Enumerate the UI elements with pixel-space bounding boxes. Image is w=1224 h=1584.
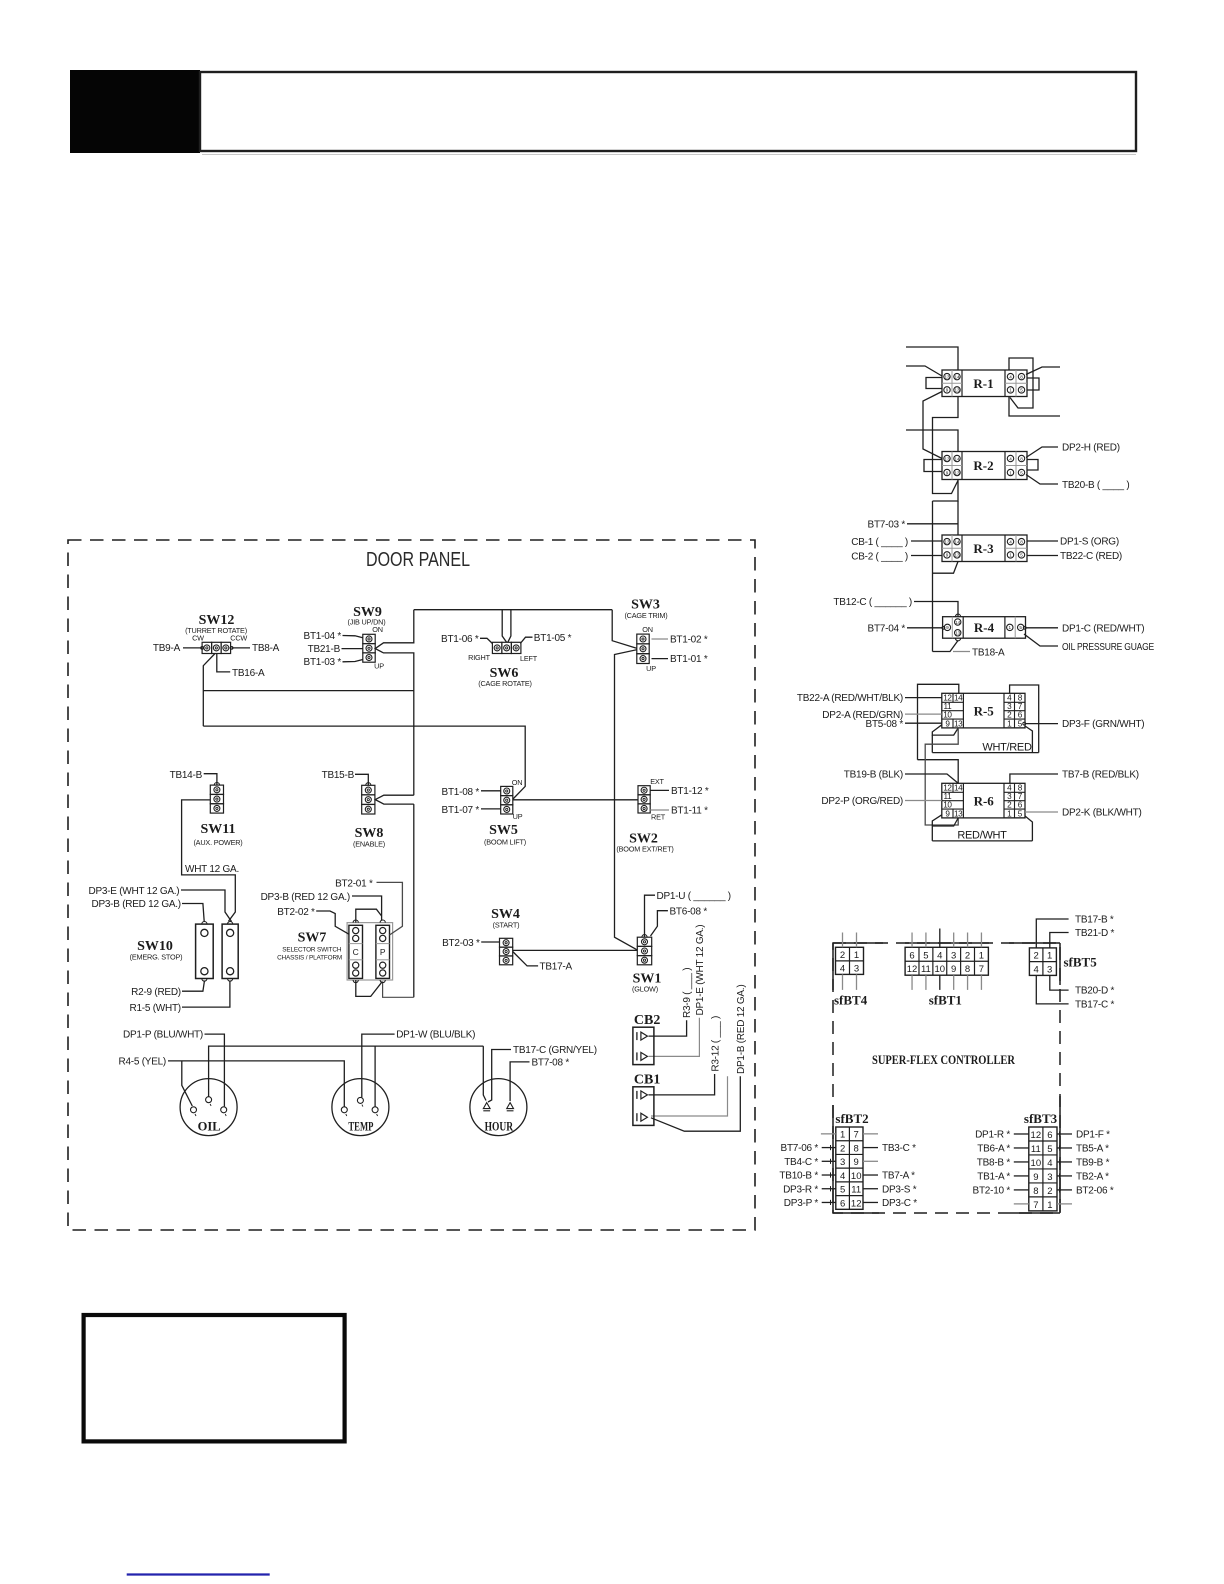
svg-text:BT7-06 *: BT7-06 *	[781, 1143, 819, 1154]
svg-text:8: 8	[1033, 1186, 1038, 1197]
svg-text:R-4: R-4	[974, 620, 995, 635]
svg-text:12: 12	[907, 964, 918, 975]
svg-text:10: 10	[935, 964, 946, 975]
svg-text:10: 10	[943, 801, 952, 810]
svg-text:BT7-03 *: BT7-03 *	[868, 520, 906, 531]
svg-text:ON: ON	[642, 625, 653, 634]
svg-text:13: 13	[944, 456, 950, 461]
svg-text:5: 5	[1018, 809, 1023, 818]
svg-text:TB22-A (RED/WHT/BLK): TB22-A (RED/WHT/BLK)	[797, 693, 903, 704]
svg-text:TB20-B ( ____ ): TB20-B ( ____ )	[1062, 480, 1129, 491]
svg-text:BT5-08 *: BT5-08 *	[866, 719, 904, 730]
svg-text:SUPER-FLEX CONTROLLER: SUPER-FLEX CONTROLLER	[872, 1052, 1015, 1067]
svg-text:TB17-C (GRN/YEL): TB17-C (GRN/YEL)	[513, 1045, 597, 1056]
svg-text:DP1-P (BLU/WHT): DP1-P (BLU/WHT)	[123, 1030, 203, 1041]
svg-text:9: 9	[945, 809, 950, 818]
svg-text:6: 6	[909, 950, 914, 961]
svg-text:7: 7	[979, 964, 984, 975]
svg-text:WHT/RED: WHT/RED	[982, 741, 1032, 753]
svg-text:13: 13	[954, 553, 960, 558]
svg-text:BT2-01 *: BT2-01 *	[335, 878, 373, 889]
svg-text:R1-5 (WHT): R1-5 (WHT)	[130, 1003, 181, 1014]
svg-text:9: 9	[946, 553, 949, 558]
svg-text:R-5: R-5	[974, 703, 995, 718]
svg-text:TB8-A: TB8-A	[252, 643, 280, 654]
svg-text:C: C	[353, 947, 359, 957]
svg-text:sfBT4: sfBT4	[834, 993, 868, 1008]
svg-text:(BOOM EXT/RET): (BOOM EXT/RET)	[616, 845, 673, 854]
svg-text:1: 1	[1007, 719, 1012, 728]
svg-text:5: 5	[1047, 1144, 1052, 1155]
svg-text:OIL: OIL	[198, 1120, 221, 1134]
svg-text:14: 14	[954, 784, 963, 793]
svg-text:SW11: SW11	[200, 822, 235, 837]
svg-text:DP3-P *: DP3-P *	[784, 1198, 819, 1209]
svg-text:CB2: CB2	[634, 1013, 660, 1028]
svg-text:CB-2 ( ____ ): CB-2 ( ____ )	[851, 552, 908, 563]
svg-text:12: 12	[1031, 1130, 1042, 1141]
svg-text:DP1-F *: DP1-F *	[1076, 1130, 1110, 1141]
svg-text:13: 13	[954, 470, 960, 475]
svg-text:1: 1	[1009, 553, 1012, 558]
svg-text:CB-1 ( ____ ): CB-1 ( ____ )	[851, 537, 908, 548]
svg-text:CCW: CCW	[230, 634, 247, 643]
svg-text:BT1-07 *: BT1-07 *	[442, 805, 480, 816]
svg-text:10: 10	[943, 711, 952, 720]
svg-text:(ENABLE): (ENABLE)	[353, 840, 385, 849]
svg-text:3: 3	[951, 950, 956, 961]
svg-text:DP3-F (GRN/WHT): DP3-F (GRN/WHT)	[1062, 719, 1144, 730]
svg-text:4: 4	[840, 1171, 845, 1182]
svg-text:R4-5 (YEL): R4-5 (YEL)	[118, 1057, 166, 1068]
svg-text:BT1-06 *: BT1-06 *	[441, 634, 479, 645]
svg-text:5: 5	[1019, 625, 1022, 630]
svg-text:TB7-B (RED/BLK): TB7-B (RED/BLK)	[1062, 770, 1139, 781]
svg-text:ON: ON	[512, 778, 523, 787]
svg-text:TEMP: TEMP	[348, 1120, 373, 1134]
svg-text:2: 2	[1034, 951, 1039, 962]
svg-text:5: 5	[1020, 388, 1023, 393]
svg-text:DP3-S *: DP3-S *	[882, 1184, 917, 1195]
svg-text:9: 9	[946, 470, 949, 475]
svg-text:8: 8	[854, 1143, 859, 1154]
svg-text:14: 14	[954, 694, 963, 703]
svg-text:8: 8	[1020, 456, 1023, 461]
svg-text:BT7-08 *: BT7-08 *	[532, 1057, 570, 1068]
svg-text:9: 9	[854, 1157, 859, 1168]
svg-text:2: 2	[1047, 1186, 1052, 1197]
svg-text:RIGHT: RIGHT	[468, 653, 490, 662]
svg-text:DP1-C (RED/WHT): DP1-C (RED/WHT)	[1062, 623, 1144, 634]
svg-text:11: 11	[851, 1185, 861, 1196]
svg-text:3: 3	[840, 1157, 845, 1168]
svg-text:3: 3	[1047, 1172, 1052, 1183]
svg-text:1: 1	[1009, 625, 1012, 630]
svg-text:sfBT5: sfBT5	[1064, 955, 1098, 970]
svg-text:10: 10	[1031, 1158, 1042, 1169]
svg-text:TB9-B *: TB9-B *	[1076, 1158, 1110, 1169]
svg-text:14: 14	[955, 620, 961, 625]
svg-text:13: 13	[954, 809, 963, 818]
svg-text:2: 2	[840, 950, 845, 961]
svg-text:(CAGE TRIM): (CAGE TRIM)	[624, 611, 667, 620]
svg-text:4: 4	[1009, 456, 1012, 461]
svg-text:P: P	[380, 947, 386, 957]
svg-text:TB9-A: TB9-A	[153, 643, 181, 654]
svg-text:CW: CW	[192, 634, 204, 643]
svg-text:TB21-B: TB21-B	[308, 644, 341, 655]
svg-text:TB7-A *: TB7-A *	[882, 1171, 915, 1182]
svg-text:2: 2	[1007, 711, 1012, 720]
svg-text:2: 2	[1007, 801, 1012, 810]
svg-text:BT6-08 *: BT6-08 *	[670, 906, 708, 917]
svg-text:TB22-C (RED): TB22-C (RED)	[1060, 551, 1122, 562]
svg-text:DOOR PANEL: DOOR PANEL	[366, 549, 470, 571]
svg-text:TB8-B *: TB8-B *	[977, 1158, 1011, 1169]
svg-text:1: 1	[1007, 809, 1012, 818]
svg-text:sfBT2: sfBT2	[835, 1111, 868, 1126]
svg-text:SELECTOR SWITCH: SELECTOR SWITCH	[282, 947, 342, 954]
svg-text:DP1-W (BLU/BLK): DP1-W (BLU/BLK)	[396, 1030, 475, 1041]
svg-text:UP: UP	[374, 662, 384, 671]
svg-text:OIL PRESSURE GUAGE: OIL PRESSURE GUAGE	[1062, 642, 1154, 653]
svg-text:BT2-03 *: BT2-03 *	[442, 938, 480, 949]
svg-text:7: 7	[854, 1130, 859, 1141]
svg-text:(GLOW): (GLOW)	[632, 985, 658, 994]
svg-text:TB10-B *: TB10-B *	[779, 1171, 818, 1182]
svg-text:BT2-02 *: BT2-02 *	[277, 907, 315, 918]
svg-text:UP: UP	[513, 812, 523, 821]
svg-text:BT7-04 *: BT7-04 *	[868, 623, 906, 634]
svg-text:DP1-S (ORG): DP1-S (ORG)	[1060, 537, 1119, 548]
svg-text:EXT: EXT	[650, 777, 664, 786]
svg-text:13: 13	[954, 719, 963, 728]
svg-text:1: 1	[1009, 470, 1012, 475]
svg-text:4: 4	[1047, 1158, 1052, 1169]
svg-text:2: 2	[965, 950, 970, 961]
svg-text:4: 4	[1009, 539, 1012, 544]
svg-text:R-3: R-3	[973, 541, 994, 556]
svg-text:14: 14	[954, 539, 960, 544]
svg-text:BT1-12 *: BT1-12 *	[671, 786, 709, 797]
svg-text:TB18-A: TB18-A	[972, 647, 1005, 658]
svg-text:6: 6	[840, 1198, 845, 1209]
svg-text:HOUR: HOUR	[485, 1120, 514, 1134]
svg-text:5: 5	[1020, 553, 1023, 558]
svg-text:5: 5	[840, 1185, 845, 1196]
svg-text:BT1-02 *: BT1-02 *	[670, 635, 708, 646]
svg-text:9: 9	[1033, 1172, 1038, 1183]
svg-text:TB17-C *: TB17-C *	[1075, 1000, 1114, 1011]
svg-text:11: 11	[921, 964, 931, 975]
svg-text:1: 1	[840, 1130, 845, 1141]
svg-text:DP1-U ( ______ ): DP1-U ( ______ )	[657, 891, 731, 902]
svg-text:BT1-05 *: BT1-05 *	[534, 633, 572, 644]
svg-text:DP3-B (RED 12 GA.): DP3-B (RED 12 GA.)	[261, 892, 350, 903]
svg-text:R-2: R-2	[973, 458, 993, 473]
svg-text:TB14-B: TB14-B	[170, 770, 203, 781]
svg-text:5: 5	[1018, 719, 1023, 728]
svg-text:BT2-10 *: BT2-10 *	[973, 1186, 1011, 1197]
svg-text:sfBT1: sfBT1	[929, 993, 962, 1008]
svg-text:(BOOM LIFT): (BOOM LIFT)	[484, 838, 526, 847]
svg-text:CB1: CB1	[634, 1073, 660, 1088]
svg-text:4: 4	[1034, 964, 1039, 975]
svg-text:DP2-P (ORG/RED): DP2-P (ORG/RED)	[821, 796, 903, 807]
svg-text:1: 1	[979, 950, 984, 961]
svg-text:WHT 12 GA.: WHT 12 GA.	[185, 864, 239, 875]
svg-text:UP: UP	[646, 664, 656, 673]
svg-text:DP3-E (WHT 12 GA.): DP3-E (WHT 12 GA.)	[89, 886, 180, 897]
svg-text:ON: ON	[372, 625, 383, 634]
svg-text:R-1: R-1	[973, 376, 993, 391]
svg-text:9: 9	[945, 719, 950, 728]
svg-text:14: 14	[954, 374, 960, 379]
svg-text:BT1-04 *: BT1-04 *	[304, 631, 342, 642]
svg-text:2: 2	[840, 1143, 845, 1154]
svg-text:11: 11	[1031, 1144, 1041, 1155]
svg-text:TB12-C ( ______ ): TB12-C ( ______ )	[833, 597, 912, 608]
svg-text:SW7: SW7	[298, 931, 327, 946]
svg-text:CHASSIS / PLATFORM: CHASSIS / PLATFORM	[277, 954, 342, 961]
svg-text:5: 5	[923, 950, 928, 961]
svg-text:TB17-B *: TB17-B *	[1075, 915, 1114, 926]
svg-text:RET: RET	[651, 812, 666, 821]
svg-text:TB3-C *: TB3-C *	[882, 1143, 916, 1154]
svg-text:SW5: SW5	[489, 823, 518, 838]
svg-text:DP2-H (RED): DP2-H (RED)	[1062, 443, 1120, 454]
svg-text:sfBT3: sfBT3	[1024, 1111, 1058, 1126]
svg-text:R2-9 (RED): R2-9 (RED)	[131, 987, 181, 998]
svg-text:8: 8	[1020, 374, 1023, 379]
svg-text:BT1-01 *: BT1-01 *	[670, 654, 708, 665]
svg-text:5: 5	[1020, 470, 1023, 475]
svg-text:6: 6	[1047, 1130, 1052, 1141]
svg-text:TB1-A *: TB1-A *	[977, 1172, 1010, 1183]
svg-text:R3-12 ( ___ ): R3-12 ( ___ )	[710, 1016, 721, 1072]
svg-text:4: 4	[840, 963, 845, 974]
svg-text:13: 13	[944, 374, 950, 379]
svg-text:BT1-03 *: BT1-03 *	[304, 657, 342, 668]
svg-text:TB6-A *: TB6-A *	[977, 1144, 1010, 1155]
svg-text:10: 10	[851, 1171, 862, 1182]
svg-text:6: 6	[1018, 711, 1023, 720]
svg-text:1: 1	[1047, 1200, 1052, 1211]
svg-text:RED/WHT: RED/WHT	[957, 830, 1007, 842]
svg-text:DP1-R *: DP1-R *	[975, 1130, 1010, 1141]
svg-text:1: 1	[1047, 951, 1052, 962]
svg-text:TB20-D *: TB20-D *	[1075, 986, 1114, 997]
svg-text:3: 3	[854, 963, 859, 974]
svg-text:TB15-B: TB15-B	[322, 770, 355, 781]
svg-text:4: 4	[1009, 374, 1012, 379]
svg-text:TB19-B (BLK): TB19-B (BLK)	[844, 770, 903, 781]
svg-text:6: 6	[1018, 801, 1023, 810]
svg-text:12: 12	[851, 1198, 862, 1209]
svg-text:1: 1	[1009, 388, 1012, 393]
svg-text:7: 7	[1033, 1200, 1038, 1211]
svg-text:TB16-A: TB16-A	[232, 668, 265, 679]
svg-text:LEFT: LEFT	[520, 654, 538, 663]
svg-text:4: 4	[937, 950, 942, 961]
svg-text:DP3-C *: DP3-C *	[882, 1198, 917, 1209]
svg-text:8: 8	[1020, 539, 1023, 544]
svg-text:(START): (START)	[493, 921, 520, 930]
svg-text:TB2-A *: TB2-A *	[1076, 1172, 1109, 1183]
svg-text:9: 9	[946, 625, 949, 630]
svg-text:R-6: R-6	[974, 793, 995, 808]
svg-text:(AUX. POWER): (AUX. POWER)	[193, 838, 242, 847]
svg-text:BT2-06 *: BT2-06 *	[1076, 1186, 1114, 1197]
svg-text:(EMERG. STOP): (EMERG. STOP)	[130, 953, 183, 962]
svg-text:3: 3	[1047, 964, 1052, 975]
svg-text:9: 9	[951, 964, 956, 975]
svg-text:TB21-D *: TB21-D *	[1075, 928, 1114, 939]
svg-text:R3-9 ( ___ ): R3-9 ( ___ )	[682, 968, 693, 1018]
svg-text:BT1-11 *: BT1-11 *	[671, 806, 708, 817]
svg-text:BT1-08 *: BT1-08 *	[442, 787, 480, 798]
svg-text:14: 14	[954, 456, 960, 461]
svg-text:DP1-B (RED 12 GA.): DP1-B (RED 12 GA.)	[736, 985, 747, 1074]
svg-text:TB4-C *: TB4-C *	[784, 1157, 818, 1168]
svg-text:8: 8	[965, 964, 970, 975]
svg-text:13: 13	[944, 539, 950, 544]
svg-text:DP1-E (WHT 12 GA.): DP1-E (WHT 12 GA.)	[695, 925, 706, 1016]
svg-text:DP3-B (RED 12 GA.): DP3-B (RED 12 GA.)	[91, 899, 180, 910]
svg-text:(CAGE ROTATE): (CAGE ROTATE)	[478, 679, 531, 688]
svg-text:13: 13	[954, 388, 960, 393]
svg-text:DP2-K (BLK/WHT): DP2-K (BLK/WHT)	[1062, 808, 1142, 819]
svg-text:9: 9	[946, 388, 949, 393]
svg-text:TB17-A: TB17-A	[540, 962, 573, 973]
svg-text:DP3-R *: DP3-R *	[783, 1184, 818, 1195]
svg-text:TB5-A *: TB5-A *	[1076, 1144, 1109, 1155]
svg-text:1: 1	[854, 950, 859, 961]
svg-text:13: 13	[955, 631, 961, 636]
